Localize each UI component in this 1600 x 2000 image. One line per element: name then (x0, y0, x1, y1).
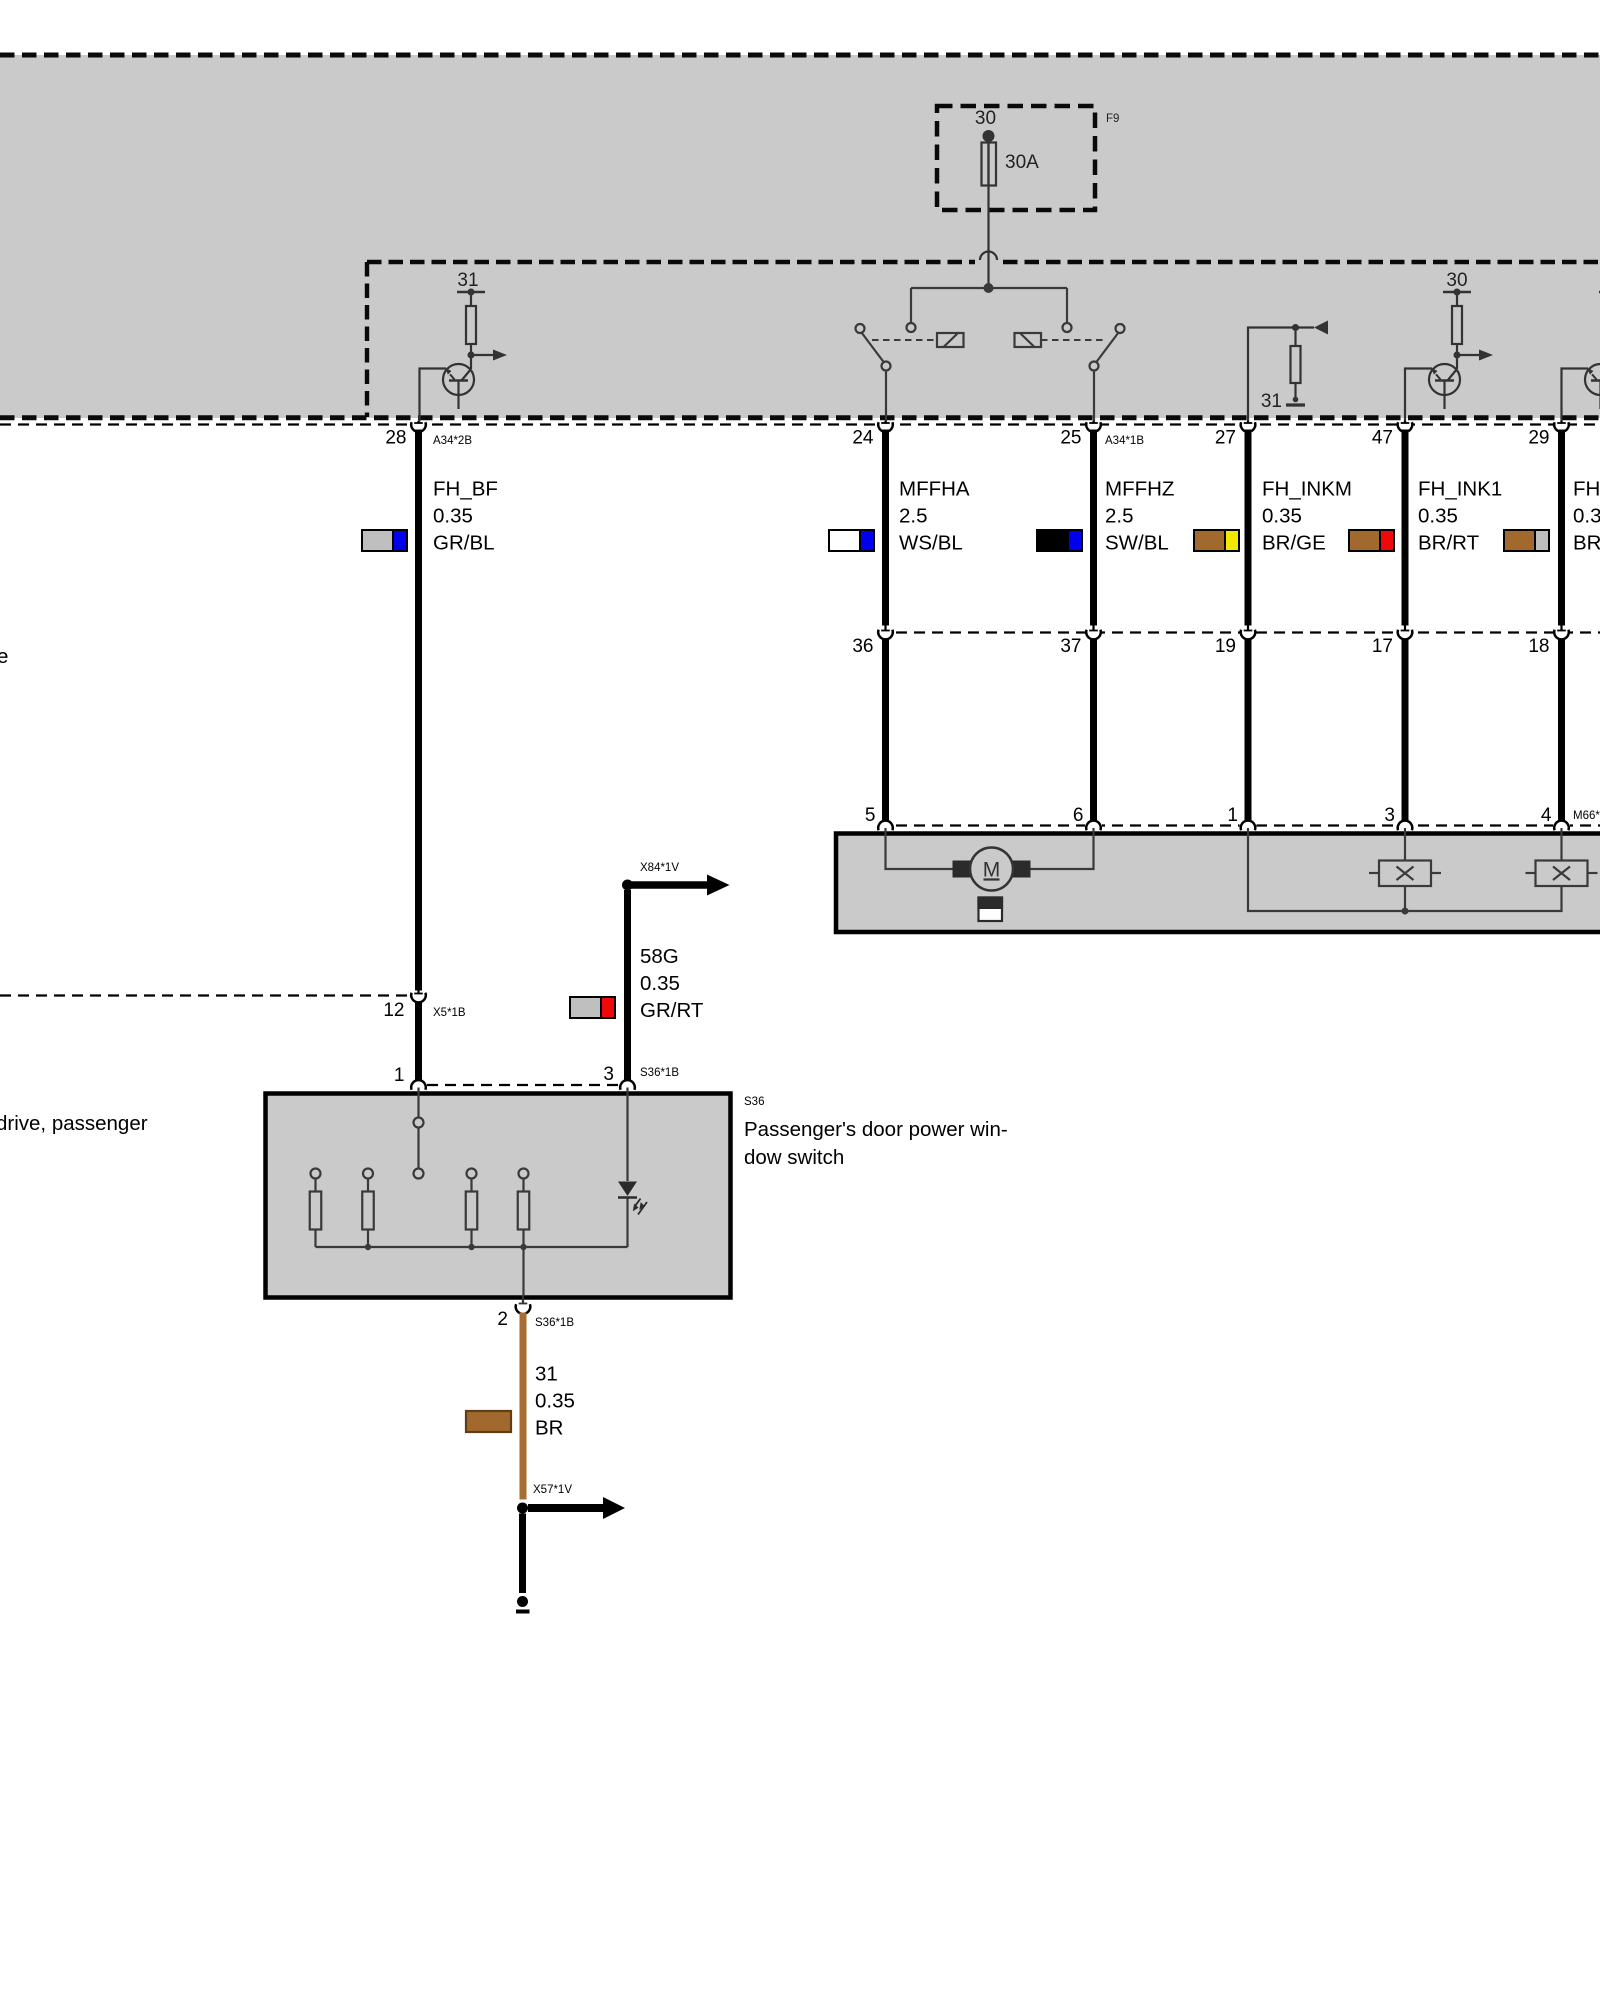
svg-text:S36*1B: S36*1B (640, 1067, 679, 1079)
svg-text:6: 6 (1073, 805, 1084, 826)
svg-text:dow switch: dow switch (744, 1146, 844, 1169)
svg-text:4: 4 (1541, 805, 1552, 826)
svg-text:SW/BL: SW/BL (1105, 532, 1169, 555)
svg-text:BR/GE: BR/GE (1262, 532, 1326, 555)
svg-text:31: 31 (1261, 391, 1282, 412)
svg-text:Passenger's door power win-: Passenger's door power win- (744, 1118, 1008, 1141)
svg-text:X57*1V: X57*1V (533, 1484, 572, 1496)
svg-text:FH_INK1: FH_INK1 (1418, 478, 1502, 501)
svg-text:5: 5 (865, 805, 876, 826)
svg-text:37: 37 (1060, 636, 1081, 657)
svg-text:S36*1B: S36*1B (535, 1317, 574, 1329)
svg-text:GR/RT: GR/RT (640, 999, 704, 1022)
svg-text:X5*1B: X5*1B (433, 1007, 466, 1019)
svg-text:19: 19 (1215, 636, 1236, 657)
svg-text:18: 18 (1528, 636, 1549, 657)
svg-text:47: 47 (1372, 428, 1393, 449)
svg-text:29: 29 (1528, 428, 1549, 449)
svg-text:0.35: 0.35 (1573, 505, 1600, 528)
svg-text:58G: 58G (640, 945, 679, 968)
svg-text:BR: BR (535, 1417, 563, 1440)
svg-text:FH_INKM: FH_INKM (1262, 478, 1352, 501)
svg-text:1: 1 (1227, 805, 1238, 826)
svg-text:0.35: 0.35 (640, 972, 680, 995)
svg-text:27: 27 (1215, 428, 1236, 449)
svg-text:S36: S36 (744, 1096, 764, 1108)
svg-text:31: 31 (457, 270, 478, 291)
svg-text:3: 3 (1384, 805, 1395, 826)
svg-text:MFFHA: MFFHA (899, 478, 970, 501)
svg-text:36: 36 (852, 636, 873, 657)
svg-text:0.35: 0.35 (535, 1390, 575, 1413)
svg-text:2: 2 (497, 1309, 508, 1330)
svg-text:0.35: 0.35 (433, 505, 473, 528)
svg-text:FH_INK2: FH_INK2 (1573, 478, 1600, 501)
svg-text:A34*1B: A34*1B (1105, 435, 1144, 447)
svg-text:F9: F9 (1106, 113, 1119, 125)
svg-text:12: 12 (383, 1000, 404, 1021)
svg-text:17: 17 (1372, 636, 1393, 657)
svg-text:M: M (983, 859, 1001, 882)
svg-text:X84*1V: X84*1V (640, 862, 679, 874)
svg-text:BR/GR: BR/GR (1573, 532, 1600, 555)
svg-text:MFFHZ: MFFHZ (1105, 478, 1174, 501)
svg-text:drive, passenger: drive, passenger (0, 1112, 148, 1135)
svg-text:24: 24 (852, 428, 874, 449)
svg-text:M66*1B: M66*1B (1573, 810, 1600, 822)
svg-text:1: 1 (394, 1065, 405, 1086)
svg-text:WS/BL: WS/BL (899, 532, 963, 555)
svg-text:0.35: 0.35 (1418, 505, 1458, 528)
svg-text:30A: 30A (1005, 152, 1039, 173)
svg-text:30: 30 (975, 108, 996, 129)
svg-text:BR/RT: BR/RT (1418, 532, 1480, 555)
svg-text:0.35: 0.35 (1262, 505, 1302, 528)
svg-text:28: 28 (385, 428, 406, 449)
svg-text:A34*2B: A34*2B (433, 435, 472, 447)
svg-text:FH_BF: FH_BF (433, 478, 498, 501)
svg-text:30: 30 (1446, 270, 1467, 291)
svg-text:31: 31 (535, 1363, 558, 1386)
svg-text:2.5: 2.5 (899, 505, 928, 528)
svg-text:3: 3 (603, 1064, 614, 1085)
svg-text:GR/BL: GR/BL (433, 532, 495, 555)
svg-text:25: 25 (1060, 428, 1081, 449)
svg-text:e: e (0, 645, 8, 668)
svg-text:2.5: 2.5 (1105, 505, 1134, 528)
